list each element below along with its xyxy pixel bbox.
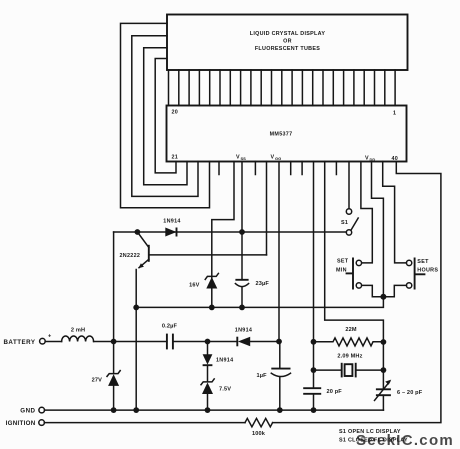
junction 1N914/7.5V column bbox=[205, 339, 211, 345]
junction VSS/S1 row bbox=[239, 229, 245, 235]
wire 0.2uF to diode bbox=[173, 341, 237, 343]
terminal IGNITION bbox=[6, 420, 45, 427]
svg-text:20: 20 bbox=[172, 110, 179, 116]
junction osc-left / 22M bbox=[311, 339, 317, 345]
svg-text:V: V bbox=[271, 155, 275, 161]
svg-text:V: V bbox=[236, 155, 240, 161]
diode D4 1N914 (series) bbox=[235, 327, 279, 346]
diode D1 1N914 bbox=[163, 219, 180, 237]
capacitor C1 0.2uF bbox=[162, 324, 178, 350]
terminal GND bbox=[20, 407, 44, 414]
wire left rail down to battery row bbox=[113, 232, 115, 373]
svg-text:HOURS: HOURS bbox=[417, 268, 438, 274]
wire ignition row west bbox=[44, 422, 245, 424]
wire SET MIN lower contact to common bbox=[362, 285, 384, 296]
svg-text:22M: 22M bbox=[345, 327, 357, 333]
junction crystal left bbox=[311, 367, 317, 373]
svg-text:1N914: 1N914 bbox=[163, 219, 180, 225]
wire IC pin (VSS) down through 23uF bbox=[241, 162, 243, 280]
svg-text:2N2222: 2N2222 bbox=[120, 253, 141, 259]
svg-text:1N914: 1N914 bbox=[235, 327, 252, 333]
terminal BATTERY bbox=[3, 334, 52, 346]
svg-text:0.2µF: 0.2µF bbox=[162, 324, 178, 330]
junction 23uF / rail bbox=[239, 305, 245, 311]
svg-text:IGNITION: IGNITION bbox=[6, 420, 36, 427]
trimmer capacitor C6 6-20 pF bbox=[375, 380, 423, 411]
junction 27V/gnd bbox=[111, 407, 117, 413]
junction supply node bbox=[276, 339, 282, 345]
svg-text:23µF: 23µF bbox=[256, 281, 270, 287]
capacitor C3 1uF bbox=[257, 342, 291, 411]
svg-text:1µF: 1µF bbox=[257, 373, 268, 379]
junction crystal right bbox=[381, 367, 387, 373]
svg-text:BATTERY: BATTERY bbox=[3, 339, 35, 346]
svg-text:V: V bbox=[365, 156, 369, 162]
wire emitter down to ground row bbox=[135, 270, 137, 411]
resistor R1 22M bbox=[314, 327, 384, 346]
crystal Y1 2.09 MHz bbox=[314, 354, 384, 378]
junction collector/S1 row bbox=[135, 229, 141, 235]
junction osc-right / 22M bbox=[381, 339, 387, 345]
svg-text:GND: GND bbox=[20, 408, 35, 415]
wire set-common node down to ground-side rail bbox=[136, 297, 383, 308]
svg-text:40: 40 bbox=[392, 156, 399, 162]
svg-text:2 mH: 2 mH bbox=[71, 328, 85, 334]
wire display-left loop 3 (pin 23 wrap-around) bbox=[132, 36, 198, 197]
zener D6 7.5V bbox=[201, 379, 231, 410]
switch S1 bbox=[341, 209, 358, 235]
wire IC osc pin down left osc node bbox=[313, 162, 315, 389]
svg-text:+: + bbox=[48, 334, 52, 340]
junction 20pF/gnd bbox=[311, 407, 317, 413]
zener D2 16V bbox=[189, 273, 218, 288]
svg-text:2.09 MHz: 2.09 MHz bbox=[337, 354, 362, 360]
IC U1 MM5377 body bbox=[167, 106, 407, 162]
svg-text:SS: SS bbox=[241, 156, 247, 161]
svg-text:GG: GG bbox=[275, 156, 281, 161]
wire IC pin to 16V zener (jog) bbox=[212, 162, 234, 308]
wire battery to inductor bbox=[45, 341, 61, 343]
switch S2 SET MIN bbox=[336, 258, 362, 290]
inductor L1 2 mH bbox=[62, 328, 94, 342]
wire display-left loop 2 (pin 22 wrap-around) bbox=[144, 48, 187, 185]
svg-text:SET: SET bbox=[417, 259, 429, 265]
pin label VGG bbox=[271, 155, 282, 162]
switch S3 SET HOURS bbox=[406, 258, 438, 290]
junction battery row / left rail bbox=[111, 339, 117, 345]
junction emitter / ground-side rail bbox=[133, 305, 139, 311]
junction 7.5V/gnd bbox=[205, 407, 211, 413]
svg-text:SeekIC.com: SeekIC.com bbox=[356, 432, 454, 449]
wire display-left loop 4 (pin 24 wrap-around) bbox=[121, 23, 210, 207]
svg-text:DD: DD bbox=[370, 157, 376, 162]
transistor Q1 2N2222 bbox=[120, 232, 149, 268]
wire ignition row east to right rail up to pin 40 bbox=[273, 162, 441, 423]
svg-text:S1: S1 bbox=[341, 220, 348, 226]
wire IC osc pin jog to right osc node bbox=[325, 162, 384, 390]
wire IC pin down to S1 bbox=[348, 162, 350, 209]
svg-text:SET: SET bbox=[337, 259, 349, 265]
svg-text:27V: 27V bbox=[92, 378, 103, 384]
wire IC pin jog to SET MIN contact bbox=[361, 162, 372, 263]
wire inductor to 0.2uF bbox=[94, 341, 167, 343]
svg-text:100k: 100k bbox=[252, 431, 266, 437]
svg-text:1: 1 bbox=[393, 111, 396, 117]
svg-text:16V: 16V bbox=[189, 283, 200, 289]
svg-text:20 pF: 20 pF bbox=[327, 389, 343, 395]
wire down from battery row bbox=[207, 342, 209, 355]
junction 1uF/gnd bbox=[277, 407, 283, 413]
IC bottom unused pin stubs bbox=[219, 162, 336, 175]
junction 16V zener / rail bbox=[209, 305, 215, 311]
pin label VSS bbox=[236, 155, 246, 162]
wire IC pin to transistor base row corner bbox=[266, 162, 268, 255]
svg-text:FLUORESCENT TUBES: FLUORESCENT TUBES bbox=[255, 46, 320, 52]
wire SET HOURS lower contact to common bbox=[383, 285, 406, 296]
wire IC pin (VGG) down to supply node bbox=[278, 162, 280, 342]
resistor R2 100k bbox=[245, 418, 273, 437]
svg-text:LIQUID CRYSTAL DISPLAY: LIQUID CRYSTAL DISPLAY bbox=[250, 31, 326, 37]
svg-text:21: 21 bbox=[172, 155, 179, 161]
svg-text:6 – 20 pF: 6 – 20 pF bbox=[397, 390, 423, 396]
IC top pin wires to display (23 lines) bbox=[169, 70, 396, 106]
svg-text:MIN: MIN bbox=[336, 268, 347, 274]
pin label VDD bbox=[365, 156, 375, 163]
capacitor C5 20 pF bbox=[303, 388, 342, 410]
display box LIQUID CRYSTAL DISPLAY / FLUORESCENT TUBES bbox=[167, 15, 408, 71]
junction set-common bbox=[380, 294, 386, 300]
wire IC pin jog to SET HOURS contact bbox=[383, 162, 407, 263]
wire base row bbox=[149, 254, 267, 256]
wire IC pin jog down to set-common node bbox=[372, 162, 384, 297]
junction emitter/gnd bbox=[133, 407, 139, 413]
svg-text:1N914: 1N914 bbox=[216, 358, 233, 364]
zener D5 27V bbox=[92, 371, 121, 411]
svg-text:MM5377: MM5377 bbox=[270, 132, 293, 138]
wire S1 row (left rail corner to S1) bbox=[114, 231, 347, 233]
wire display-left loop 1 (pin 21 wrap-around) bbox=[155, 59, 176, 173]
svg-text:OR: OR bbox=[283, 39, 292, 45]
diode D3 1N914 bbox=[203, 354, 234, 381]
svg-text:7.5V: 7.5V bbox=[219, 387, 231, 393]
wire ground row bbox=[45, 409, 384, 411]
capacitor C2 23uF bbox=[235, 280, 269, 308]
